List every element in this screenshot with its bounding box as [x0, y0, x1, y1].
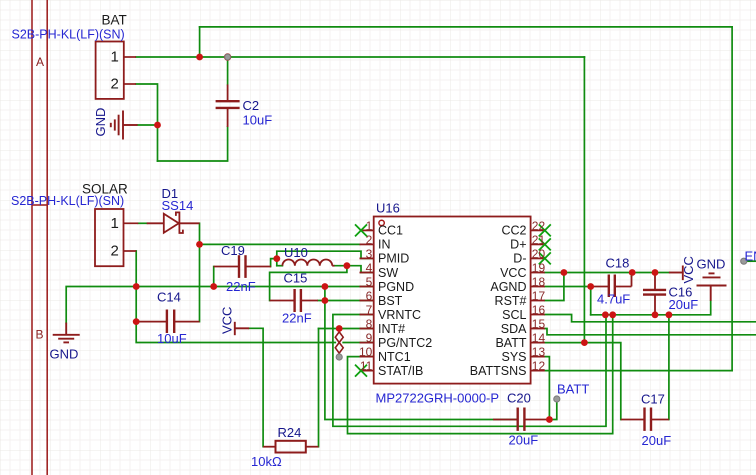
junction VCC x C16 — [652, 269, 659, 276]
net probe double diamond — [335, 332, 343, 356]
wire BATT pin14 to C17 — [545, 343, 621, 420]
wire SYS pin13 down — [545, 357, 550, 420]
node EN label anchor (gray) — [741, 258, 747, 264]
wire BATT label drop — [549, 399, 556, 420]
junction INT# / probe — [336, 325, 343, 332]
svg-text:VRNTC: VRNTC — [378, 308, 421, 322]
wire C2 top — [227, 57, 229, 85]
svg-text:BATTSNS: BATTSNS — [470, 364, 527, 378]
wire BATT vertical from top — [583, 57, 585, 343]
svg-text:2: 2 — [110, 76, 118, 93]
capacitor C16 — [643, 273, 666, 315]
svg-text:NTC1: NTC1 — [378, 350, 411, 364]
diode D1 SS14 — [147, 212, 200, 233]
svg-text:MP2722GRH-0000-P: MP2722GRH-0000-P — [376, 391, 500, 406]
svg-text:17: 17 — [532, 289, 546, 303]
svg-text:SDA: SDA — [501, 322, 527, 336]
svg-text:22nF: 22nF — [282, 311, 312, 326]
wire GND rail left — [66, 287, 374, 323]
IC U16 left pin stubs 1-11 — [360, 229, 374, 231]
wire C15 right to BST — [318, 300, 374, 302]
wire diode cathode down to IN — [199, 223, 201, 321]
node probe anchor (gray) — [336, 354, 342, 360]
no-connect X pin21 D+ — [539, 238, 551, 250]
wire U10 left connect — [276, 259, 278, 266]
wire BAT+ up from junction — [199, 27, 201, 57]
svg-text:AGND: AGND — [490, 280, 526, 294]
ground GND2 lower left — [53, 323, 80, 343]
resistor R24 — [263, 441, 318, 453]
junction PGND — [322, 283, 329, 290]
svg-text:SCL: SCL — [502, 308, 526, 322]
svg-text:PG/NTC2: PG/NTC2 — [378, 336, 432, 350]
svg-text:BAT: BAT — [102, 13, 127, 28]
svg-text:20uF: 20uF — [509, 433, 539, 448]
svg-text:GND: GND — [93, 108, 108, 137]
svg-text:PGND: PGND — [378, 280, 414, 294]
junction VCC x RST# — [561, 269, 568, 276]
svg-text:R24: R24 — [278, 425, 302, 440]
connector BAT pin numbers — [110, 49, 118, 260]
junction C14 left — [133, 318, 140, 325]
svg-text:18: 18 — [532, 275, 546, 289]
svg-text:BATT: BATT — [495, 336, 526, 350]
svg-text:C14: C14 — [157, 290, 181, 305]
connector SOLAR pin1 stub — [124, 222, 139, 224]
svg-text:12: 12 — [532, 359, 546, 373]
wire BAT pin2 — [136, 84, 158, 161]
wire BAT+ top horizontal — [200, 26, 733, 28]
junction GND at BAT pin2 — [154, 122, 161, 129]
svg-text:INT#: INT# — [378, 322, 405, 336]
no-connect X pin20 D- — [539, 252, 551, 264]
svg-text:3: 3 — [366, 247, 373, 261]
wire BAT+ right edge vertical — [731, 27, 733, 371]
svg-text:BST: BST — [378, 294, 403, 308]
svg-text:15: 15 — [532, 317, 546, 331]
wire NTC1 pin10 — [348, 315, 613, 434]
junction BATT net — [581, 339, 588, 346]
svg-text:VCC: VCC — [500, 266, 526, 280]
svg-text:5: 5 — [366, 275, 373, 289]
svg-text:C2: C2 — [243, 98, 260, 113]
wire SDA pin15 — [545, 329, 756, 335]
svg-text:6: 6 — [366, 289, 373, 303]
wire VCC pin19 rail — [545, 272, 669, 274]
svg-text:22: 22 — [532, 219, 546, 233]
node BATT label anchor (gray) — [554, 396, 560, 402]
connector SOLAR pin2 stub — [124, 250, 137, 252]
wire C17 right up — [668, 315, 670, 420]
svg-text:U16: U16 — [376, 201, 400, 216]
svg-text:1: 1 — [110, 215, 118, 232]
svg-text:13: 13 — [532, 345, 546, 359]
svg-text:21: 21 — [532, 233, 546, 247]
wire C19 to U10 elbow — [271, 259, 277, 267]
wire AGND down to rail — [590, 287, 592, 315]
svg-text:20uF: 20uF — [669, 297, 699, 312]
wire R24 right up — [318, 329, 320, 447]
wire R24 left from VCC — [249, 328, 263, 446]
svg-text:9: 9 — [366, 331, 373, 345]
svg-text:16: 16 — [532, 303, 546, 317]
junction AGND rail x C16 bottom — [652, 311, 659, 318]
junction AGND / C18 left — [587, 283, 594, 290]
junction AGND rail x C17 — [666, 311, 673, 318]
svg-text:2: 2 — [110, 243, 118, 260]
svg-text:10uF: 10uF — [157, 331, 187, 346]
junction PMID tap — [273, 255, 280, 262]
node C2 tap (gray over red) — [224, 53, 231, 60]
wire AGND bottom rail — [591, 301, 711, 315]
ground GND1 at BAT (rotated bars) — [111, 111, 138, 140]
svg-text:CC1: CC1 — [378, 224, 403, 238]
capacitor C15 — [270, 289, 318, 312]
svg-text:RST#: RST# — [495, 294, 527, 308]
svg-text:S2B-PH-KL(LF)(SN): S2B-PH-KL(LF)(SN) — [11, 194, 124, 208]
svg-text:B: B — [36, 328, 44, 342]
svg-text:D-: D- — [513, 252, 526, 266]
svg-text:11: 11 — [360, 359, 373, 373]
junction AGND rail x NTC1 return — [609, 311, 616, 318]
wire RST# to VCC — [545, 273, 564, 301]
svg-text:19: 19 — [532, 261, 546, 275]
svg-text:1: 1 — [366, 219, 373, 233]
IC U16 left pin numbers — [359, 219, 373, 373]
svg-text:1: 1 — [110, 49, 118, 66]
svg-text:SS14: SS14 — [162, 198, 194, 213]
svg-text:20uF: 20uF — [642, 433, 672, 448]
wire EN stub — [744, 260, 756, 262]
svg-text:20: 20 — [532, 247, 546, 261]
svg-text:STAT/IB: STAT/IB — [378, 364, 423, 378]
connector BAT body — [96, 42, 124, 99]
wire BATTSNS horizontal — [545, 370, 732, 372]
svg-text:10kΩ: 10kΩ — [251, 454, 282, 469]
svg-text:PMID: PMID — [378, 252, 409, 266]
IC U16 pin1 marker — [379, 220, 384, 225]
power flag VCC right — [669, 266, 683, 281]
IC U16 right pin names — [470, 224, 527, 378]
svg-text:C18: C18 — [606, 256, 630, 271]
svg-text:SYS: SYS — [501, 350, 526, 364]
svg-text:BATT: BATT — [557, 382, 589, 397]
wire C2 bottom return — [158, 127, 228, 161]
connector BAT pin2 stub — [124, 83, 136, 85]
svg-text:4.7uF: 4.7uF — [597, 292, 630, 307]
svg-text:C15: C15 — [284, 270, 308, 285]
svg-text:S2B-PH-KL(LF)(SN): S2B-PH-KL(LF)(SN) — [12, 28, 125, 42]
junction SYS / C20 right — [546, 416, 553, 423]
power flag VCC left — [235, 322, 249, 335]
svg-text:EN: EN — [745, 249, 756, 264]
wire SW to pin4 — [335, 266, 374, 273]
svg-text:8: 8 — [366, 317, 373, 331]
wire IN pin2 — [200, 243, 360, 245]
svg-text:IN: IN — [378, 238, 391, 252]
wire AGND pin18 — [545, 286, 591, 288]
svg-text:2: 2 — [366, 233, 373, 247]
svg-text:VCC: VCC — [220, 307, 235, 334]
junction GND rail x SOLAR pin2 — [133, 283, 140, 290]
svg-text:7: 7 — [366, 303, 373, 317]
wire SOLAR pin2 down — [136, 251, 335, 343]
svg-text:C19: C19 — [221, 243, 245, 258]
wire PGND BST vertical to C20 — [325, 287, 518, 420]
IC U16 right pin stubs 22-12 — [531, 229, 545, 231]
connector SOLAR body — [95, 209, 124, 266]
frame border left lines — [32, 0, 47, 475]
svg-text:GND: GND — [697, 257, 726, 272]
junction GND rail x C19 — [210, 283, 217, 290]
wire PG/NTC2 to pin9 — [343, 342, 374, 344]
svg-text:14: 14 — [532, 331, 546, 345]
svg-text:A: A — [36, 55, 44, 69]
wire BAT+ pin1 horizontal — [136, 56, 584, 58]
capacitor C19 — [214, 255, 271, 278]
svg-text:GND: GND — [50, 347, 79, 362]
capacitor C18 — [591, 275, 632, 298]
svg-text:22nF: 22nF — [226, 279, 256, 294]
svg-text:10uF: 10uF — [243, 113, 273, 128]
wire SCL pin16 — [545, 315, 756, 322]
IC U16 body — [374, 217, 531, 384]
junction VCC x C18 — [629, 269, 636, 276]
svg-text:VCC: VCC — [681, 256, 696, 283]
capacitor C17 — [621, 408, 669, 431]
wire SOLAR pin1 to diode — [138, 222, 146, 224]
wire C19 left drop — [213, 267, 215, 287]
svg-text:C20: C20 — [507, 391, 531, 406]
wire INT# pin8 — [319, 328, 374, 330]
IC U16 right pin numbers — [532, 219, 546, 373]
wire C18 right up — [631, 273, 633, 277]
wire VRNTC pin7 — [333, 315, 606, 427]
svg-text:C17: C17 — [641, 392, 665, 407]
junction AGND rail x VRNTC return — [602, 311, 609, 318]
capacitor C2 — [216, 85, 240, 128]
junction SW branch — [344, 262, 351, 269]
capacitor C14 — [136, 310, 199, 334]
svg-text:U10: U10 — [284, 245, 308, 260]
svg-text:CC2: CC2 — [501, 224, 526, 238]
ground GND3 right — [697, 273, 727, 300]
inductor U10 — [282, 259, 334, 265]
wire SW branch to C15 — [270, 266, 347, 301]
no-connect X pin11 STAT/IB — [355, 365, 367, 377]
wire PMID tap — [277, 251, 374, 258]
svg-text:4: 4 — [366, 261, 373, 275]
no-connect X pin22 CC2 — [539, 224, 551, 236]
svg-text:D+: D+ — [510, 238, 526, 252]
svg-text:SW: SW — [378, 266, 398, 280]
junction BST / C15 — [322, 297, 329, 304]
junction BAT+ top tap — [196, 54, 203, 61]
IC U16 left pin names — [378, 224, 432, 378]
svg-text:10: 10 — [359, 345, 373, 359]
wire gnd stub to junction — [138, 124, 158, 126]
connector BAT pin1 stub — [124, 56, 136, 58]
no-connect X pin1 CC1 — [355, 224, 551, 376]
junction diode cathode / IN — [196, 241, 203, 248]
capacitor C20 — [493, 408, 549, 431]
